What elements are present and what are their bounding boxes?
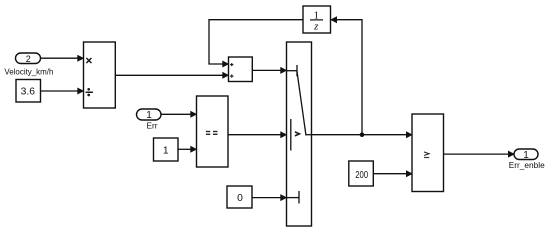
svg-text:0: 0	[237, 193, 243, 204]
svg-text:Err_enble: Err_enble	[509, 160, 545, 170]
svg-text:1: 1	[163, 146, 169, 157]
svg-text:3.6: 3.6	[21, 87, 36, 98]
svg-text:z: z	[313, 21, 319, 33]
svg-text:Err: Err	[146, 120, 157, 130]
svg-text:Velocity_km/h: Velocity_km/h	[4, 67, 53, 77]
svg-text:2: 2	[26, 54, 31, 64]
svg-text:200: 200	[355, 170, 368, 181]
